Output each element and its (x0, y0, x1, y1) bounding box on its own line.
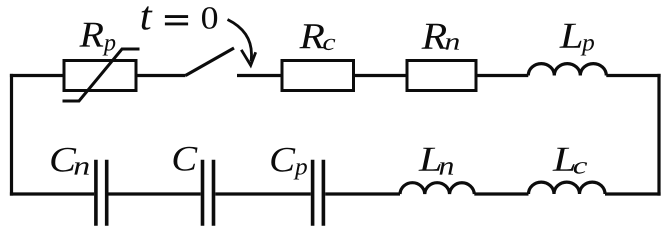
label Lp (559, 24, 594, 56)
resistor Rp box (varistor) (64, 61, 136, 91)
wire Lc to Ln (474, 192, 528, 195)
capacitor C plates (203, 160, 214, 226)
wire C to Cp (215, 192, 310, 195)
inductor Ln coil (400, 183, 474, 194)
wire Lp to right corner (606, 74, 660, 77)
inductor Lp coil (528, 64, 606, 76)
label Rp (79, 23, 115, 56)
wire top-left horizontal (10, 74, 64, 77)
label Rc (299, 24, 335, 50)
label Cn (51, 148, 89, 175)
switch arrowhead (241, 50, 255, 66)
switch blade (open) (186, 48, 235, 76)
label C (174, 147, 198, 171)
wire Cn to C (109, 192, 201, 195)
capacitor Cp plates (313, 160, 324, 226)
wire bottom-right horizontal (605, 192, 661, 195)
wire Rp to switch pivot (136, 74, 186, 77)
switch right contact wire (237, 74, 282, 77)
wire Rn to Lp (476, 74, 528, 77)
label Rn (421, 24, 459, 50)
inductor Lc coil (529, 182, 606, 194)
wire bottom-left horizontal (10, 192, 94, 195)
wire Rc to Rn (354, 74, 408, 77)
wire Cp to Ln (325, 192, 400, 195)
wire left vertical (10, 74, 13, 196)
resistor Rc box (282, 61, 354, 91)
label Ln (419, 148, 454, 175)
switch actuation arrow curve (228, 20, 252, 62)
resistor Rp diagonal stroke (63, 49, 140, 101)
label t = 0 (142, 6, 218, 29)
capacitor Cn plates (96, 160, 107, 226)
label Lc (553, 148, 588, 174)
wire right vertical (657, 74, 660, 196)
label Cp (271, 148, 307, 180)
resistor Rn box (407, 61, 476, 91)
